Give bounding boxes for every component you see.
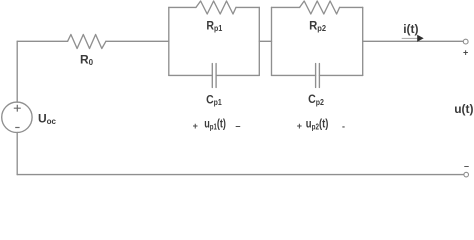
capacitor Cp1: [212, 64, 216, 88]
svg-text:Uoc: Uoc: [38, 111, 57, 126]
box2 left edge: [271, 7, 273, 75]
label Cp2: [308, 94, 324, 107]
svg-text:+: +: [463, 48, 468, 58]
wire box2 to positive terminal: [363, 40, 464, 42]
resistor R0: [68, 35, 106, 49]
svg-text:up2(t): up2(t): [306, 118, 329, 132]
current arrow shaft: [402, 37, 418, 39]
wire R0 to box1: [106, 40, 169, 42]
label up1(t): [204, 118, 226, 132]
voltage source Uoc circle: [2, 102, 32, 132]
svg-text:−: −: [235, 121, 240, 131]
box2 right edge: [362, 7, 364, 75]
capacitor Cp2: [316, 64, 320, 88]
label Cp1: [206, 94, 222, 108]
wire bottom: [17, 174, 464, 176]
svg-text:u(t): u(t): [454, 102, 473, 116]
voltage source plus mark: [14, 105, 21, 112]
label Rp2: [309, 19, 326, 33]
positive terminal circle: [463, 39, 468, 44]
label up2(t): [306, 118, 329, 132]
svg-text:i(t): i(t): [403, 22, 418, 36]
svg-text:-: -: [342, 121, 345, 131]
wire left vertical upper: [16, 41, 18, 102]
voltage source minus mark: [15, 127, 19, 129]
box1 top edge segments: [169, 6, 259, 8]
svg-text:Rp1: Rp1: [206, 20, 222, 33]
svg-text:Rp2: Rp2: [309, 19, 326, 33]
box2 bottom edge segments: [272, 74, 363, 76]
box1 bottom edge segments: [169, 74, 259, 76]
svg-text:R0: R0: [80, 52, 94, 67]
svg-text:+: +: [297, 121, 302, 131]
svg-text:up1(t): up1(t): [204, 118, 226, 132]
current arrow head: [417, 35, 424, 42]
box1 right edge: [258, 7, 260, 75]
svg-text:Cp2: Cp2: [308, 94, 324, 107]
wire top left: [17, 40, 67, 42]
box1 left edge: [168, 7, 170, 75]
resistor Rp1: [196, 1, 236, 14]
box2 top edge segments: [272, 6, 363, 8]
wire left vertical lower: [16, 132, 18, 174]
svg-text:–: –: [464, 161, 469, 171]
svg-text:+: +: [193, 121, 198, 131]
negative terminal circle: [464, 172, 469, 177]
label Rp1: [206, 20, 222, 33]
wire box1 to box2: [259, 40, 271, 42]
svg-text:Cp1: Cp1: [206, 94, 222, 108]
resistor Rp2: [300, 1, 340, 14]
